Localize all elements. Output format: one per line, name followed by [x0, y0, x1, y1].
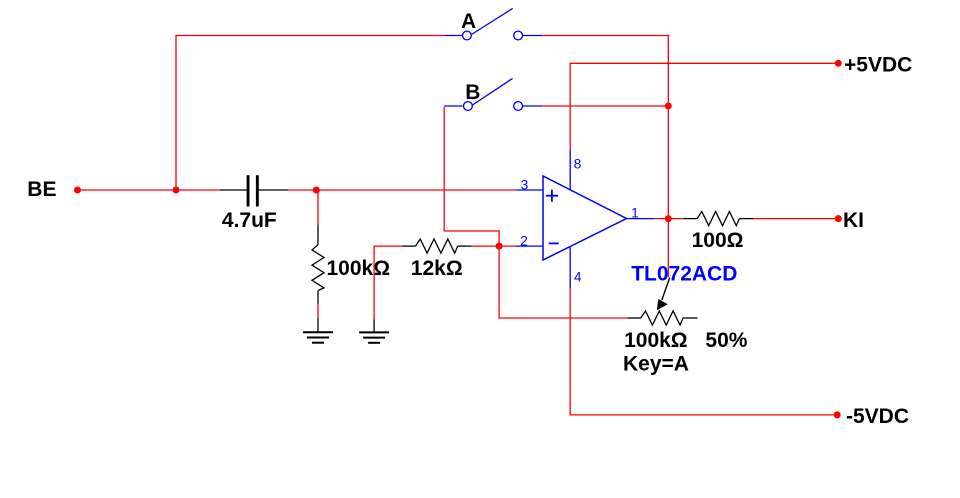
wire switch A to right rail — [542, 36, 668, 278]
node KI — [835, 209, 864, 232]
ground GND2 — [359, 319, 389, 343]
wire R3 to KI — [753, 218, 838, 220]
node junction after capacitor — [313, 187, 320, 194]
wire junction down to feedback/pot — [499, 246, 627, 318]
wire switch B right to rail junction — [542, 105, 668, 107]
wire junction up to switch A row — [176, 36, 444, 191]
switch B — [444, 78, 542, 110]
node junction at BE line — [173, 187, 180, 194]
node junction pin2 — [496, 243, 503, 250]
svg-text:4: 4 — [574, 269, 582, 284]
svg-text:A: A — [461, 10, 476, 33]
potentiometer R4 100k body — [623, 311, 748, 375]
node +5VDC — [835, 53, 912, 76]
svg-text:3: 3 — [521, 178, 529, 193]
wire +5VDC rail — [570, 63, 838, 149]
resistor R1 100k (vertical) — [312, 225, 390, 304]
wire 12k left elbow to ground — [374, 246, 402, 319]
node -5VDC — [834, 405, 909, 428]
wire R1 to ground — [317, 304, 319, 319]
node junction output — [665, 215, 672, 222]
svg-text:BE: BE — [27, 178, 56, 201]
svg-text:-5VDC: -5VDC — [846, 405, 909, 428]
svg-text:Key=A: Key=A — [623, 352, 689, 375]
svg-text:KI: KI — [843, 209, 864, 232]
svg-text:100kΩ: 100kΩ — [327, 257, 391, 280]
switch A — [444, 8, 542, 40]
wire switch B left to inverting input path — [444, 107, 499, 246]
op-amp U1 TL072ACD — [515, 150, 737, 289]
ground GND1 — [303, 318, 333, 343]
wire 12k to pin2 junction — [472, 245, 499, 247]
svg-text:100Ω: 100Ω — [692, 229, 744, 252]
svg-text:50%: 50% — [705, 329, 747, 352]
wire junction to op-amp pin3 — [316, 189, 515, 191]
svg-text:4.7uF: 4.7uF — [222, 209, 277, 232]
wire capacitor to junction — [288, 189, 316, 191]
svg-text:8: 8 — [574, 157, 582, 172]
node junction B rail — [665, 103, 672, 110]
potentiometer R4 100k wiper arrow — [657, 278, 670, 311]
svg-text:100kΩ: 100kΩ — [624, 329, 688, 352]
wire output pin1 — [655, 218, 684, 220]
wire junction down to R1 — [317, 190, 319, 225]
wire pin4 to -5VDC rail — [570, 288, 837, 415]
resistor R2 12k (horizontal) — [402, 239, 472, 280]
node BE — [27, 178, 81, 201]
svg-text:+5VDC: +5VDC — [844, 53, 912, 76]
svg-text:12kΩ: 12kΩ — [411, 257, 463, 280]
svg-text:2: 2 — [520, 234, 528, 249]
wire junction to pin2 — [499, 245, 515, 247]
capacitor C1 4.7uF — [220, 175, 288, 232]
resistor R3 100 ohm — [684, 212, 754, 253]
svg-text:TL072ACD: TL072ACD — [631, 262, 737, 285]
wire BE junction to capacitor — [176, 189, 220, 191]
svg-text:1: 1 — [631, 206, 639, 221]
wire BE to junction — [78, 189, 177, 191]
